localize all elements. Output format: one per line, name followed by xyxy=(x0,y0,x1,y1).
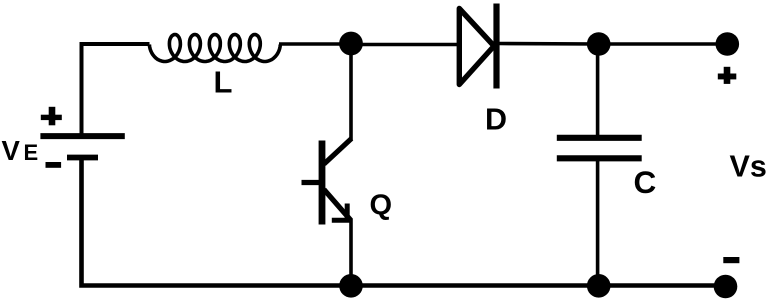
diode D xyxy=(459,4,496,89)
wire from node B to output positive terminal xyxy=(599,42,728,46)
wire from node B down to capacitor top plate xyxy=(596,44,600,137)
battery voltage source VE xyxy=(40,136,124,157)
output negative sign - xyxy=(723,257,739,263)
svg-text:C: C xyxy=(634,164,657,200)
wire from node A to diode anode xyxy=(351,43,458,47)
output positive sign + xyxy=(718,67,737,84)
value label L xyxy=(214,65,233,100)
svg-text:E: E xyxy=(24,140,39,165)
wire from node A down to transistor collector xyxy=(349,44,353,141)
inductor L xyxy=(149,35,280,62)
wire from transistor emitter to bottom rail xyxy=(349,219,353,286)
node B junction dot (diode/capacitor/output) xyxy=(587,32,611,56)
svg-text:Q: Q xyxy=(370,190,393,222)
svg-text:D: D xyxy=(485,103,507,137)
transistor Q (NPN) xyxy=(302,139,352,225)
value label D xyxy=(485,103,507,137)
value label Q xyxy=(370,190,393,222)
wire from battery positive up and right to inductor L xyxy=(82,44,150,134)
battery negative sign - xyxy=(46,162,62,168)
node A junction dot (inductor/transistor/diode) xyxy=(339,32,363,56)
wire from inductor to node A xyxy=(279,42,351,46)
svg-text:L: L xyxy=(214,65,233,100)
value label C xyxy=(634,164,657,200)
wire from battery negative along bottom rail to output negative terminal xyxy=(82,157,727,286)
svg-text:Vs: Vs xyxy=(730,150,767,184)
wire from diode cathode to node B xyxy=(499,42,599,46)
output label Vs xyxy=(730,150,767,184)
output negative terminal dot xyxy=(714,275,738,299)
output positive terminal dot xyxy=(716,32,740,56)
node C junction dot (emitter on bottom rail) xyxy=(339,274,363,298)
svg-text:V: V xyxy=(2,135,21,166)
source label VE xyxy=(2,135,39,166)
node D junction dot (capacitor on bottom rail) xyxy=(587,274,611,298)
battery positive sign + xyxy=(41,107,62,126)
wire from capacitor bottom plate to bottom rail xyxy=(596,160,600,286)
capacitor C xyxy=(557,138,642,159)
